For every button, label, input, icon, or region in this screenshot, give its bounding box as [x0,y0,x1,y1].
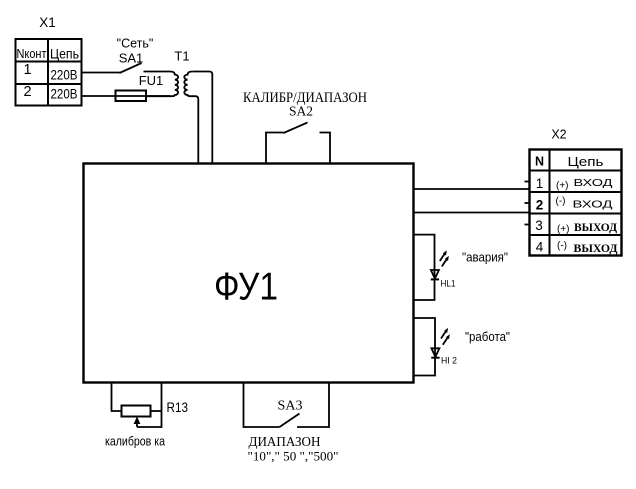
wire X1 pin1 to SA1 [82,72,121,74]
svg-text:X1: X1 [39,15,56,30]
wire unit to HL2 loop [414,318,435,376]
wire R13 terminal 2 to wiper bus [151,410,162,412]
svg-text:Цепь: Цепь [568,154,604,169]
svg-text:Цепь: Цепь [50,47,79,62]
wire X1 pin2 to FU1 [82,95,116,97]
svg-text:220В: 220В [51,67,78,83]
svg-text:"авария": "авария" [462,250,508,265]
LED HL1 [431,250,449,279]
svg-text:1: 1 [536,176,544,191]
svg-text:ФУ1: ФУ1 [214,266,278,309]
svg-text:(+): (+) [557,224,570,235]
unit ФУ1 box [84,164,414,383]
svg-text:FU1: FU1 [139,73,164,88]
resistor R13 [122,406,151,417]
X2 pin 2 tick [525,202,530,204]
svg-text:220В: 220В [51,85,78,101]
connector X2 [530,150,622,256]
svg-text:(-): (-) [557,241,567,252]
R13 wiper arrow [134,417,141,428]
wire unit to R13 wiper [137,383,162,427]
svg-text:"работа": "работа" [465,329,510,344]
fuse FU1 [116,91,147,102]
connector X1 [16,39,82,106]
svg-text:"10"," 50 ","500": "10"," 50 ","500" [248,449,339,464]
switch SA3 [244,383,330,427]
svg-text:ВЫХОД: ВЫХОД [574,241,619,255]
LED HL2 [431,328,450,358]
svg-text:1: 1 [23,62,31,78]
svg-text:4: 4 [536,240,544,255]
svg-text:X2: X2 [551,128,566,142]
svg-text:HI 2: HI 2 [441,356,457,367]
svg-text:калибров ка: калибров ка [105,435,165,449]
svg-text:ВЫХОД: ВЫХОД [574,220,618,234]
svg-text:2: 2 [23,84,31,100]
wire T1 secondary top to unit [192,72,212,164]
wire unit to X2 pin1 [414,188,530,190]
svg-text:(-): (-) [556,196,566,207]
wire T1 secondary bottom to unit [192,96,199,163]
svg-text:ВХОД: ВХОД [574,177,613,189]
svg-text:ВХОД: ВХОД [573,199,613,211]
svg-text:HL1: HL1 [441,279,456,290]
svg-text:(+): (+) [556,181,569,192]
svg-text:SA1: SA1 [119,51,144,66]
svg-text:SA2: SA2 [289,104,313,119]
svg-text:SA3: SA3 [278,399,303,414]
svg-text:2: 2 [536,198,544,213]
switch SA1 [120,63,142,73]
svg-text:3: 3 [535,218,543,233]
X2 pin 3 tick [525,224,530,226]
svg-text:Nконт: Nконт [17,47,47,61]
svg-text:T1: T1 [174,49,189,64]
svg-text:"Сеть": "Сеть" [117,37,154,51]
X2 pin 1 tick [525,181,530,183]
svg-text:R13: R13 [167,400,189,415]
wire FU1 to T1 primary [146,95,170,97]
svg-text:N: N [535,155,544,169]
wire unit to R13 terminal 1 [112,383,122,411]
wire SA1 to T1 primary [144,71,171,73]
wire unit to X2 pin2 [414,212,530,214]
transformer T1 [146,72,192,97]
switch SA2 [266,123,330,164]
wire unit to HL1 loop [414,235,435,300]
